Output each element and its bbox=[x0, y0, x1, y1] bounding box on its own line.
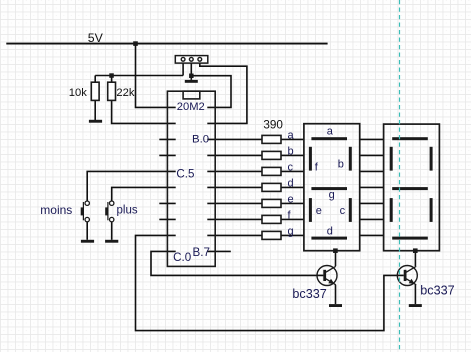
display DS2 box bbox=[384, 124, 440, 251]
resistor Rf bbox=[262, 215, 281, 223]
wire moins button to chip C.5 pin bbox=[87, 171, 176, 201]
resistor Rd bbox=[262, 183, 281, 191]
wire display1 to display2 row e bbox=[360, 202, 384, 204]
wire 10k bottom to ground bbox=[94, 100, 96, 120]
wire segment g to display bbox=[281, 234, 304, 236]
wire 5V drop to chip V+ pin bbox=[136, 44, 176, 108]
ground below plus bbox=[105, 240, 118, 243]
resistor Rg bbox=[262, 231, 281, 239]
node header ground branch junction bbox=[189, 74, 194, 79]
svg-text:C.5: C.5 bbox=[176, 168, 194, 181]
resistor Rb bbox=[262, 151, 281, 159]
resistor Rc bbox=[262, 167, 281, 175]
wire segment b to display bbox=[281, 154, 304, 156]
svg-text:22k: 22k bbox=[116, 87, 134, 99]
svg-text:a: a bbox=[327, 126, 334, 138]
DS2 segment e bbox=[390, 198, 393, 222]
wire serial-in net (10k top to header left pin) bbox=[95, 75, 183, 77]
node 5V rail junction bbox=[133, 41, 138, 46]
wire segment e to display bbox=[281, 202, 304, 204]
wire display1 to display2 row b bbox=[360, 154, 384, 156]
svg-text:b: b bbox=[288, 145, 294, 157]
wire segment b row bbox=[207, 154, 262, 156]
wire header middle pin to ground bbox=[190, 61, 192, 80]
DS1 segment g bbox=[311, 187, 347, 190]
svg-text:d: d bbox=[288, 177, 294, 189]
resistor Ra bbox=[262, 135, 281, 143]
wire display1 common to Q1 collector bbox=[335, 251, 337, 266]
DS2 segment c bbox=[430, 198, 433, 222]
node display1 common junction bbox=[333, 248, 338, 253]
svg-text:g: g bbox=[329, 189, 335, 201]
resistor 22k bbox=[108, 82, 116, 100]
DS1 segment b bbox=[349, 147, 352, 171]
wire segment g row bbox=[207, 234, 262, 236]
svg-text:a: a bbox=[288, 129, 295, 141]
DS1 segment d bbox=[311, 237, 347, 240]
wire header right pin to chip serial-in pin bbox=[200, 61, 247, 123]
wire segment f row bbox=[207, 218, 262, 220]
svg-text:e: e bbox=[316, 205, 322, 217]
connector programming header bbox=[175, 56, 208, 64]
svg-text:390: 390 bbox=[263, 119, 283, 132]
ground below 10k bbox=[89, 120, 102, 123]
wire display1 to display2 row f bbox=[360, 218, 384, 220]
ground below Q2 bbox=[409, 304, 422, 307]
resistor Re bbox=[262, 199, 281, 207]
svg-text:bc337: bc337 bbox=[420, 283, 454, 297]
wire plus button to chip pin bbox=[112, 187, 176, 201]
svg-text:5V: 5V bbox=[88, 31, 104, 45]
chip pin stub right B.7 bbox=[207, 250, 231, 252]
svg-text:B.0: B.0 bbox=[192, 133, 209, 145]
wire display1 to display2 row g bbox=[360, 234, 384, 236]
wire segment e row bbox=[207, 202, 262, 204]
wire display2 common to Q2 collector bbox=[414, 251, 416, 266]
wire segment a to display bbox=[281, 138, 304, 140]
wire 5V power rail bbox=[6, 43, 327, 45]
svg-text:c: c bbox=[288, 161, 294, 173]
wire 10k top stub bbox=[94, 76, 96, 83]
wire digit-2 drive: chip pin to bottom rail to Q2 base bbox=[136, 235, 404, 330]
wire Q2 emitter to ground bbox=[414, 285, 416, 304]
DS2 segment f bbox=[390, 147, 393, 171]
DS1 segment e bbox=[309, 198, 312, 222]
svg-text:b: b bbox=[338, 159, 344, 171]
wire segment d to display bbox=[281, 186, 304, 188]
wire display1 to display2 row d bbox=[360, 186, 384, 188]
wire segment c row bbox=[207, 170, 262, 172]
DS2 segment b bbox=[430, 147, 433, 171]
DS2 segment a bbox=[392, 137, 428, 140]
svg-text:10k: 10k bbox=[69, 87, 87, 99]
svg-text:20M2: 20M2 bbox=[177, 101, 205, 113]
wire header left pin down bbox=[182, 61, 184, 75]
wire header middle branch to chip pin (serial out) bbox=[191, 76, 231, 108]
pushbutton moins bbox=[81, 201, 90, 222]
node display2 common junction bbox=[413, 248, 418, 253]
svg-text:c: c bbox=[340, 205, 346, 217]
DS1 segment a bbox=[311, 137, 347, 140]
pushbutton plus bbox=[105, 201, 114, 222]
wire Q1 emitter to ground bbox=[335, 285, 337, 304]
svg-text:B.7: B.7 bbox=[193, 246, 210, 259]
wire 22k bottom to chip serial pin bbox=[112, 100, 176, 123]
chip pin stub left row8 bbox=[159, 218, 175, 220]
svg-text:d: d bbox=[327, 225, 333, 237]
svg-text:e: e bbox=[288, 193, 294, 205]
DS2 segment g bbox=[392, 187, 428, 190]
DS1 segment f bbox=[309, 147, 312, 171]
wire C.0 pin to Q1 base bbox=[151, 251, 323, 275]
wire segment f to display bbox=[281, 218, 304, 220]
op-amp U1 chip 20M2 body bbox=[167, 91, 215, 266]
wire display1 to display2 row c bbox=[360, 170, 384, 172]
wire segment c to display bbox=[281, 170, 304, 172]
resistor 10k bbox=[91, 82, 99, 100]
wire segment a row bbox=[207, 138, 262, 140]
svg-text:moins: moins bbox=[40, 203, 72, 217]
ground below moins bbox=[81, 240, 94, 243]
svg-text:bc337: bc337 bbox=[292, 287, 326, 301]
chip pin stub left row7 bbox=[159, 202, 175, 204]
wire plus button to ground bbox=[111, 222, 113, 240]
svg-text:g: g bbox=[288, 225, 294, 237]
page break dashed line bbox=[399, 0, 401, 352]
chip pin stub left row4 bbox=[159, 154, 175, 156]
wire display1 to display2 row a bbox=[360, 138, 384, 140]
DS1 segment c bbox=[349, 198, 352, 222]
wire 22k top stub bbox=[111, 76, 113, 83]
ground below header bbox=[185, 80, 198, 83]
svg-text:C.0: C.0 bbox=[173, 251, 191, 264]
svg-text:plus: plus bbox=[117, 205, 138, 217]
transistor Q1 bbox=[317, 266, 337, 286]
wire segment d row bbox=[207, 186, 262, 188]
DS2 segment d bbox=[392, 237, 428, 240]
display DS1 box bbox=[304, 124, 360, 251]
wire moins button to ground bbox=[86, 222, 88, 240]
chip pin stub left row3 bbox=[159, 138, 175, 140]
transistor Q2 bbox=[397, 266, 417, 286]
ground below Q1 bbox=[329, 304, 342, 307]
node 22k top junction bbox=[109, 73, 114, 78]
